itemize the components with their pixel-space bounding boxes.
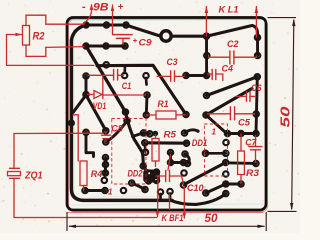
pad curve end (141, 163, 146, 168)
wire DD1 right trace to C7 (226, 161, 256, 165)
pad B1 (83, 43, 88, 48)
IC outline DD1 dashed (205, 124, 228, 176)
node arrowhead BF1 1 (156, 212, 160, 218)
wire R1 left column (145, 95, 149, 115)
capacitor C9 (114, 35, 133, 45)
pad ground stub 1 (158, 189, 163, 194)
node arrowhead L1 2 (255, 6, 259, 13)
svg-text:1: 1 (212, 128, 217, 137)
wire top extension line (268, 17, 297, 19)
wire ground trace along left edge and bottom (71, 25, 172, 200)
svg-text:DD1: DD1 (192, 138, 208, 149)
wire pad to edge trace (73, 95, 86, 113)
pad R5 right (182, 130, 187, 135)
capacitor C7 (249, 136, 262, 163)
pad right col 4 (254, 111, 259, 116)
pad J3 (204, 73, 209, 78)
wire stub pad below (144, 146, 147, 153)
pad DD2 d (154, 178, 159, 183)
wire diagonal K1 to right pad (207, 77, 258, 96)
svg-text:C6: C6 (251, 83, 262, 93)
wire DD2 cluster (143, 166, 156, 181)
pad arc top (182, 151, 187, 156)
wire DD2 left column (104, 158, 107, 175)
wire 9B plus arrow (112, 5, 114, 35)
trace R5 pair (144, 132, 150, 136)
pad x147 (144, 92, 149, 97)
capacitor C8 (102, 133, 111, 142)
pad ZQ1 entry (83, 130, 88, 135)
resistor R3 (238, 134, 245, 184)
wire diagonal B1 to DD2 top pad (86, 46, 126, 112)
pad DD1 right col 4 (223, 171, 228, 176)
svg-text:50: 50 (205, 213, 219, 225)
wire DD1 C arc (185, 154, 189, 164)
IC outline DD2 dashed (112, 119, 146, 185)
wire stub red below pad (169, 194, 171, 210)
capacitor C10 (156, 155, 184, 185)
pad DD2 c (146, 178, 151, 183)
pad below trace (143, 150, 148, 155)
svg-text:9B: 9B (93, 2, 109, 14)
wire R2 bottom lead (26, 45, 84, 56)
pad col c (103, 170, 108, 175)
resistor R5 (152, 135, 159, 167)
node arrowhead L1 1 (205, 6, 209, 13)
label -9B+ (82, 1, 124, 14)
pad VD1 left top (83, 73, 88, 78)
resistor R1 (147, 111, 186, 119)
pad top-right (255, 35, 260, 40)
pad ground stub 2 (167, 189, 172, 194)
pad K2 (203, 112, 208, 117)
pad C3 right (183, 73, 188, 78)
scan tint bands (decorative) (68, 19, 265, 21)
capacitor C3 (157, 71, 184, 82)
pad C8 bottom (103, 139, 108, 144)
pad right col 3 (255, 74, 260, 79)
svg-text:ZQ1: ZQ1 (24, 170, 43, 181)
wire red underline below bottom edge (67, 212, 263, 214)
pad pair right (181, 160, 186, 165)
pad R5 top filled (153, 131, 159, 137)
pad C8 top (103, 128, 108, 133)
node arrow left (68, 225, 76, 228)
pad VD1 left bottom (83, 92, 88, 97)
wire R5 row curve (185, 130, 198, 133)
svg-text:C3: C3 (167, 57, 178, 67)
pad C10 right (181, 182, 186, 187)
wire R3 bottom trace (226, 182, 241, 185)
svg-text:50: 50 (279, 106, 293, 127)
wire ground curve to pad (171, 194, 226, 205)
pad curve right (142, 187, 147, 192)
svg-text:C9: C9 (139, 38, 153, 49)
wire C3 pad to J3 (186, 74, 207, 77)
wire K L1 arrow 1 (205, 7, 207, 37)
wire stub to pad under trace (123, 66, 126, 74)
node arrowhead 9B right (111, 5, 115, 11)
pad DD2 b (154, 169, 159, 174)
svg-text:R4: R4 (91, 169, 103, 180)
wire left edge extension down (66, 212, 68, 231)
pad B2 (103, 43, 108, 48)
pad A2 (104, 22, 109, 27)
node arrow down (290, 203, 293, 211)
node R2 arrowhead (16, 33, 22, 37)
wire 9B minus arrow (84, 5, 92, 24)
pad mid right (181, 170, 186, 175)
node arrow up (292, 18, 295, 26)
capacitor C1 (89, 70, 124, 81)
pad DD1 left top (184, 141, 189, 146)
wire branch to pad pair (133, 133, 144, 137)
wire J column (205, 36, 208, 75)
pad DD1 pin (203, 151, 208, 156)
wire R2 arrow input (7, 34, 22, 36)
pad DD2 a (146, 170, 151, 175)
trace top row A (86, 23, 126, 26)
node arrowhead 9B left (90, 4, 94, 10)
pad DD1 right col 1 (223, 140, 228, 145)
svg-text:C7: C7 (245, 137, 257, 147)
wire right column lower (256, 77, 257, 134)
trace row B (86, 44, 125, 47)
dimension lines group (67, 18, 297, 231)
wire lower diagonal (206, 184, 227, 193)
svg-text:C8: C8 (111, 124, 123, 134)
svg-text:1: 1 (108, 188, 113, 197)
board outline red fringe (69, 19, 268, 212)
big ring pad (161, 31, 171, 41)
wire R2 top lead (26, 15, 84, 25)
wire bottom extension line (268, 210, 297, 212)
pad DD1 right col 5 (223, 181, 228, 186)
resistor R2 (23, 26, 30, 46)
wire stub 1 (159, 194, 162, 200)
capacitor C4 (208, 70, 223, 81)
svg-text:C5: C5 (238, 118, 251, 129)
wire diagonal C10 pad to DD1 right column (184, 163, 226, 185)
svg-text:R1: R1 (158, 99, 169, 109)
wire K BF1 arrow 1 (157, 177, 160, 217)
pad DD2 top (123, 109, 128, 114)
pad right col 2 (255, 53, 260, 58)
pad DD1 right col 2 (223, 151, 228, 156)
pad R1 left (144, 112, 149, 117)
pad trace left end (142, 140, 147, 145)
pad row C5 c (253, 131, 258, 136)
wire ZQ1 bottom lead (14, 178, 157, 217)
svg-text:C4: C4 (222, 64, 234, 74)
wire R2 loop to board (7, 35, 95, 66)
pad R1 right (183, 112, 188, 117)
node C9 plus (134, 39, 137, 42)
red overlay group (7, 4, 263, 220)
pad row C5 a (225, 131, 230, 136)
trace bottom left pair (85, 189, 105, 192)
trace C5 row (228, 132, 257, 135)
svg-text:C2: C2 (227, 39, 239, 49)
wire stub down from pad (145, 78, 148, 85)
board outline (67, 18, 266, 211)
wire stub 2 (169, 194, 172, 201)
pad pair top (168, 150, 173, 155)
capacitor C2 (209, 51, 257, 64)
node end of diagonal (251, 87, 254, 90)
pad on mid trace (104, 62, 109, 67)
svg-text:K L1: K L1 (219, 5, 239, 16)
svg-text:R5: R5 (164, 130, 178, 140)
pad bottom mid (121, 188, 126, 193)
pad on edge trace (69, 121, 74, 126)
svg-text:C10: C10 (187, 183, 204, 193)
svg-text:R2: R2 (33, 31, 45, 43)
pad DD1 right col 6 (223, 191, 228, 196)
wire A3 to ring to top-right pad (126, 25, 258, 38)
pad mid curve (124, 118, 129, 123)
svg-text:VD1: VD1 (93, 101, 107, 111)
pad row C5 b (238, 131, 243, 136)
resistor R4 (73, 115, 87, 190)
pad bottom left 2 (102, 188, 107, 193)
svg-text:DD2: DD2 (128, 168, 143, 178)
wire mid horizontal under R5 (145, 141, 187, 144)
node curve end (196, 130, 199, 133)
pad B3 (122, 43, 127, 48)
wire right column upper (256, 38, 259, 56)
node DD2 cluster blob (143, 170, 160, 183)
wire curve C8 pad up right (106, 122, 127, 143)
pad A3 (123, 22, 128, 27)
pad R3 bottom (238, 181, 243, 186)
wire DD1 pin to right column (206, 152, 226, 155)
svg-text:+: + (118, 2, 124, 13)
pad C7 bottom (253, 161, 258, 166)
dimension line right 50 (292, 20, 294, 209)
wire horizontal mid-left (97, 65, 186, 114)
dimension line bottom 50 (69, 225, 265, 227)
pad arc bottom (185, 161, 190, 166)
wire K BF1 arrow 2 (183, 187, 185, 219)
diode VD1 (88, 75, 146, 98)
wire between pads (85, 76, 88, 95)
pad K1 (204, 93, 209, 98)
pad col x146 top (143, 73, 148, 78)
svg-text:R3: R3 (246, 168, 260, 179)
pad R5 a (141, 130, 146, 135)
wire diagonal K2 up right (206, 89, 252, 116)
svg-text:K BF1: K BF1 (162, 213, 184, 224)
wire right edge extension down (265, 212, 267, 231)
node arrow right (258, 225, 266, 228)
pad curve left (129, 180, 134, 185)
pad col d (102, 178, 107, 183)
pad J1 (204, 34, 209, 39)
wire ZQ1 top lead to board (14, 133, 103, 168)
pad lower diag left (203, 190, 208, 195)
svg-text:C1: C1 (122, 81, 132, 91)
pad under mid trace (122, 73, 127, 78)
wire big sweep curve down (126, 112, 144, 166)
capacitor C6 (236, 92, 256, 102)
pad A1 (83, 22, 88, 27)
pad col a (103, 155, 108, 160)
svg-text:-: - (82, 1, 86, 13)
pad bottom left 1 (82, 188, 87, 193)
wire diagonal to DD2 area (86, 95, 106, 131)
capacitor C5 (208, 107, 255, 120)
pad R5 b (147, 131, 152, 136)
pad J2 (204, 53, 209, 58)
wire diagonal K2 down right (207, 116, 228, 134)
crystal ZQ1 (8, 168, 21, 178)
pad DD1 right col 3 (223, 160, 228, 165)
pad col b (103, 162, 108, 167)
wire curve DD2 to pad (132, 183, 145, 190)
node arrowhead BF1 2 (183, 213, 187, 219)
wire L-shape (86, 132, 94, 156)
wire K L1 arrow 2 (255, 7, 257, 38)
wire pair vertical (171, 153, 184, 163)
pad pair bottom (168, 160, 173, 165)
